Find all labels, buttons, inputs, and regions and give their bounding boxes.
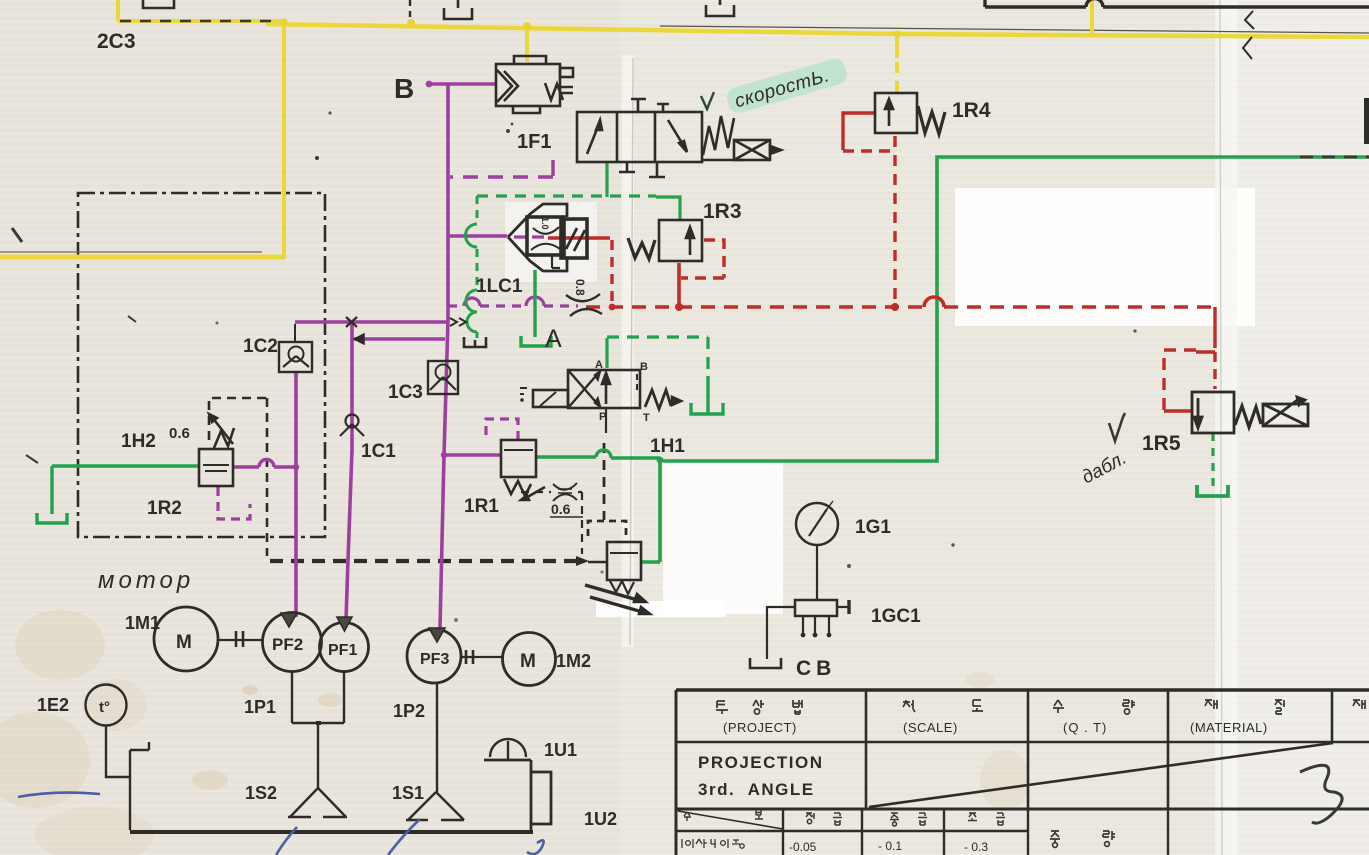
svg-text:- 0.3: - 0.3 bbox=[964, 840, 988, 854]
svg-text:- 0.1: - 0.1 bbox=[878, 839, 902, 853]
svg-text:1P1: 1P1 bbox=[244, 697, 276, 717]
svg-text:PF1: PF1 bbox=[328, 642, 357, 659]
svg-text:1R5: 1R5 bbox=[1142, 432, 1181, 455]
svg-text:B: B bbox=[640, 361, 648, 373]
svg-text:1H1: 1H1 bbox=[650, 436, 685, 457]
svg-text:t°: t° bbox=[99, 699, 110, 716]
svg-text:P: P bbox=[599, 411, 606, 423]
svg-text:M: M bbox=[176, 632, 192, 653]
svg-text:дабл.: дабл. bbox=[1078, 448, 1130, 489]
svg-text:1P2: 1P2 bbox=[393, 701, 425, 721]
svg-text:(Q . T): (Q . T) bbox=[1063, 720, 1107, 735]
svg-text:1.0: 1.0 bbox=[540, 217, 550, 230]
svg-text:1R3: 1R3 bbox=[703, 200, 742, 223]
svg-text:1GC1: 1GC1 bbox=[871, 606, 921, 627]
svg-text:(PROJECT): (PROJECT) bbox=[723, 720, 797, 735]
svg-text:1S2: 1S2 bbox=[245, 783, 277, 803]
svg-text:PF3: PF3 bbox=[420, 651, 449, 668]
svg-text:PROJECTION: PROJECTION bbox=[698, 753, 824, 772]
svg-text:-0.05: -0.05 bbox=[789, 840, 817, 854]
svg-text:1R4: 1R4 bbox=[952, 99, 991, 122]
svg-text:M: M bbox=[520, 651, 536, 672]
svg-text:1R1: 1R1 bbox=[464, 496, 499, 517]
svg-text:B: B bbox=[394, 73, 414, 104]
svg-text:A: A bbox=[545, 325, 562, 353]
svg-text:1C2: 1C2 bbox=[243, 336, 278, 357]
svg-text:3rd. ANGLE: 3rd. ANGLE bbox=[698, 780, 815, 799]
svg-text:1M2: 1M2 bbox=[556, 651, 591, 671]
svg-text:0.6: 0.6 bbox=[169, 425, 190, 442]
svg-text:1R2: 1R2 bbox=[147, 498, 182, 519]
svg-text:(MATERIAL): (MATERIAL) bbox=[1190, 720, 1268, 735]
svg-text:1G1: 1G1 bbox=[855, 517, 891, 538]
svg-text:1C3: 1C3 bbox=[388, 382, 423, 403]
svg-text:1E2: 1E2 bbox=[37, 695, 69, 715]
svg-text:0.6: 0.6 bbox=[551, 501, 571, 517]
svg-text:A: A bbox=[595, 359, 603, 371]
svg-text:скоростЬ.: скоростЬ. bbox=[732, 65, 832, 112]
svg-text:PF2: PF2 bbox=[272, 635, 303, 654]
svg-text:2C3: 2C3 bbox=[97, 30, 136, 53]
svg-text:1U1: 1U1 bbox=[544, 740, 577, 760]
svg-text:(SCALE): (SCALE) bbox=[903, 720, 958, 735]
svg-text:1C1: 1C1 bbox=[361, 441, 396, 462]
svg-text:0.8: 0.8 bbox=[573, 279, 587, 296]
svg-text:1M1: 1M1 bbox=[125, 613, 160, 633]
svg-text:мотор: мотор bbox=[98, 567, 194, 594]
svg-text:CB: CB bbox=[796, 657, 836, 680]
svg-text:T: T bbox=[643, 412, 650, 424]
svg-text:1H2: 1H2 bbox=[121, 431, 156, 452]
svg-text:1LC1: 1LC1 bbox=[476, 276, 523, 297]
svg-text:1S1: 1S1 bbox=[392, 783, 424, 803]
svg-text:1U2: 1U2 bbox=[584, 809, 617, 829]
svg-text:1F1: 1F1 bbox=[517, 131, 551, 153]
